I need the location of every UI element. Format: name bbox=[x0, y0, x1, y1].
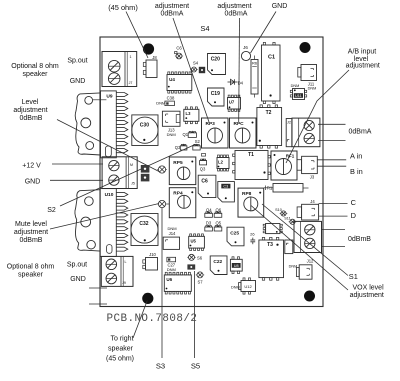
label S3 bottom bbox=[156, 362, 165, 371]
svg-text:DNM: DNM bbox=[167, 267, 176, 272]
svg-text:S4: S4 bbox=[193, 61, 199, 66]
wire B in bbox=[318, 165, 347, 167]
wire leader (45 ohm) to J8 bbox=[126, 12, 148, 59]
svg-text:L3: L3 bbox=[186, 111, 192, 116]
svg-text:M: M bbox=[130, 163, 133, 167]
svg-text:DNM: DNM bbox=[308, 86, 317, 90]
svg-text:U7: U7 bbox=[229, 100, 235, 105]
svg-text:U10: U10 bbox=[105, 192, 114, 198]
switch S3 symbol bbox=[157, 200, 169, 207]
svg-text:RP3: RP3 bbox=[206, 121, 216, 127]
label GND left top bbox=[70, 78, 86, 85]
svg-text:Mute level: Mute level bbox=[15, 221, 47, 228]
svg-text:Level: Level bbox=[22, 99, 39, 106]
svg-text:A/B input: A/B input bbox=[348, 49, 376, 56]
svg-text:C1: C1 bbox=[268, 55, 275, 61]
label +12 V bbox=[22, 162, 41, 169]
IC U9 bbox=[93, 91, 128, 158]
IC U4 bbox=[167, 72, 192, 93]
svg-text:J10: J10 bbox=[149, 252, 156, 257]
wire +12V bbox=[52, 163, 103, 165]
label GND left mid bbox=[25, 178, 41, 185]
IC U10 heatsink bbox=[75, 190, 100, 251]
label A in bbox=[350, 151, 362, 160]
IC L2 bbox=[217, 155, 229, 171]
svg-text:L: L bbox=[125, 260, 127, 264]
capacitor C27 bbox=[167, 257, 176, 272]
svg-text:S6: S6 bbox=[197, 256, 203, 261]
terminal block A-in/B-in bbox=[292, 118, 320, 147]
connector J8 bbox=[143, 55, 157, 78]
IC U9 heatsink bbox=[75, 93, 100, 155]
svg-text:Q3: Q3 bbox=[200, 167, 206, 172]
svg-text:RF1: RF1 bbox=[286, 154, 295, 159]
potentiometer RP5 bbox=[169, 157, 196, 185]
wire leader GND to J6 bbox=[251, 12, 277, 54]
svg-text:adjustment: adjustment bbox=[155, 3, 189, 10]
svg-text:S7: S7 bbox=[197, 280, 203, 285]
label (45 ohm) bbox=[108, 3, 138, 12]
svg-text:J12: J12 bbox=[307, 259, 314, 264]
wire leader level-adj to S2 switch bbox=[57, 120, 160, 173]
svg-text:adjustment: adjustment bbox=[13, 107, 47, 114]
terminal block +12V/GND bbox=[102, 157, 137, 189]
transistor Q4 bbox=[205, 207, 213, 217]
wire leader VOX to RP8 bbox=[251, 206, 348, 291]
svg-text:C: C bbox=[351, 198, 357, 207]
svg-text:U5: U5 bbox=[191, 238, 197, 243]
svg-text:C20: C20 bbox=[211, 57, 220, 63]
svg-text:+12 V: +12 V bbox=[22, 162, 41, 169]
wire leader S2 bbox=[60, 145, 195, 207]
potentiometer RPC bbox=[230, 118, 257, 148]
svg-text:J5: J5 bbox=[131, 182, 135, 186]
svg-text:A in: A in bbox=[350, 151, 362, 160]
connector J5 bbox=[285, 240, 293, 254]
switch S10 symbol bbox=[275, 208, 287, 216]
mounting hole top-left bbox=[143, 43, 154, 54]
label VOX level adjustment bbox=[350, 285, 384, 300]
IC U5 bbox=[189, 234, 205, 251]
connector J2 bbox=[286, 119, 292, 147]
svg-text:0dBmB: 0dBmB bbox=[20, 237, 43, 244]
svg-text:S11: S11 bbox=[284, 217, 290, 221]
switch S11 symbol bbox=[284, 217, 296, 225]
svg-text:U12: U12 bbox=[244, 284, 252, 289]
mounting hole top-right bbox=[300, 42, 311, 53]
svg-text:S10: S10 bbox=[275, 208, 282, 212]
capacitor C30 bbox=[132, 115, 158, 146]
connector J10 bbox=[143, 252, 158, 270]
transistor Q1 bbox=[183, 131, 197, 138]
svg-text:PCB.NO.7808/2: PCB.NO.7808/2 bbox=[107, 313, 198, 325]
label S1 bbox=[349, 272, 358, 281]
capacitor C19 bbox=[208, 88, 225, 106]
svg-text:T2: T2 bbox=[266, 110, 272, 116]
svg-text:S4: S4 bbox=[200, 24, 209, 33]
svg-text:Optional 8 ohm: Optional 8 ohm bbox=[7, 264, 55, 271]
svg-text:(45 ohm): (45 ohm) bbox=[106, 356, 134, 363]
wire leader A/B to RPF1 bbox=[286, 70, 349, 163]
switch S4 symbol bbox=[190, 61, 198, 73]
capacitor C3 bbox=[218, 182, 235, 202]
IC U11 bbox=[290, 84, 306, 100]
svg-text:J9: J9 bbox=[122, 281, 126, 285]
IC U6 bbox=[164, 272, 191, 294]
label S2 bbox=[47, 207, 56, 214]
svg-text:RPC: RPC bbox=[234, 121, 245, 127]
svg-text:L2: L2 bbox=[218, 159, 224, 164]
svg-text:C6: C6 bbox=[201, 178, 208, 184]
PCB board outline bbox=[100, 37, 323, 307]
resistor R6 bbox=[251, 56, 258, 98]
svg-text:Optional 8 ohm: Optional 8 ohm bbox=[11, 63, 59, 70]
svg-text:Q5: Q5 bbox=[216, 221, 222, 226]
label GND left bottom bbox=[70, 276, 86, 283]
IC U3 bbox=[263, 224, 282, 234]
text PCB.NO.7808/2 bbox=[107, 313, 198, 325]
capacitor C1 bbox=[262, 42, 281, 103]
wire stub GND bbox=[89, 303, 107, 305]
svg-text:adjustment: adjustment bbox=[14, 229, 48, 236]
svg-text:0dBmA: 0dBmA bbox=[161, 11, 184, 18]
svg-text:U8: U8 bbox=[234, 264, 239, 268]
svg-text:J4: J4 bbox=[310, 199, 315, 204]
svg-text:adjustment: adjustment bbox=[217, 3, 251, 10]
IC U12 bbox=[231, 278, 256, 294]
svg-text:1: 1 bbox=[130, 55, 132, 59]
IC U7 bbox=[228, 95, 241, 111]
capacitor C38 bbox=[156, 96, 175, 106]
connector J14 bbox=[163, 226, 179, 249]
terminal block J7 bbox=[102, 52, 137, 87]
transistor Q5 bbox=[214, 221, 222, 231]
svg-text:C25: C25 bbox=[230, 230, 239, 236]
label to right speaker bbox=[106, 336, 134, 363]
svg-text:RP5: RP5 bbox=[173, 160, 183, 166]
transformer T1 bbox=[233, 151, 271, 180]
label 0dBmB right bbox=[348, 236, 371, 243]
svg-text:T3: T3 bbox=[267, 242, 273, 248]
wire C bbox=[319, 203, 348, 205]
svg-text:D3: D3 bbox=[206, 221, 212, 226]
svg-text:S2: S2 bbox=[195, 139, 201, 144]
svg-text:J6: J6 bbox=[243, 45, 248, 50]
potentiometer RP8 bbox=[238, 188, 264, 217]
svg-text:J7: J7 bbox=[129, 81, 133, 85]
connector J13 bbox=[162, 111, 180, 137]
label adjustment 0dBmA left bbox=[155, 3, 189, 18]
switch S2 symbol bbox=[157, 166, 167, 173]
transistor Q3 bbox=[200, 154, 207, 172]
svg-text:0dBmB: 0dBmB bbox=[20, 115, 43, 122]
label Sp.out top bbox=[67, 58, 87, 65]
label B in bbox=[350, 167, 363, 176]
label S5 bottom bbox=[191, 362, 200, 371]
svg-text:S2: S2 bbox=[47, 207, 56, 214]
wire 0dBmA upper bbox=[318, 123, 346, 125]
capacitor C20 bbox=[208, 54, 226, 75]
svg-text:C38: C38 bbox=[167, 96, 175, 101]
svg-text:(45 ohm): (45 ohm) bbox=[108, 3, 138, 12]
terminal block J9 bbox=[101, 256, 133, 286]
label A/B input level adjustment bbox=[346, 49, 380, 70]
svg-text:C30: C30 bbox=[140, 122, 149, 128]
switch S2 small symbol bbox=[193, 139, 201, 150]
wire leader S1 to RP8 bbox=[262, 204, 348, 276]
svg-text:C32: C32 bbox=[139, 221, 148, 227]
label D bbox=[351, 211, 356, 220]
svg-text:GND: GND bbox=[272, 3, 288, 10]
wire 0dBmB upper bbox=[322, 229, 346, 231]
svg-text:To right: To right bbox=[111, 336, 134, 343]
connector J4 bbox=[297, 199, 319, 220]
switch S6 symbol bbox=[187, 254, 202, 260]
IC U8 bbox=[230, 257, 242, 274]
label mute level adjustment bbox=[14, 221, 48, 244]
diode D7 bbox=[187, 264, 195, 269]
diode D2 bbox=[141, 174, 150, 182]
svg-text:T1: T1 bbox=[248, 152, 254, 158]
diode D4 bbox=[228, 79, 244, 85]
svg-text:26: 26 bbox=[250, 231, 255, 236]
label GND top bbox=[272, 3, 288, 10]
potentiometer RP4 bbox=[169, 188, 196, 218]
transformer T2 bbox=[257, 105, 282, 148]
svg-text:R6: R6 bbox=[252, 61, 258, 66]
svg-text:J2: J2 bbox=[287, 121, 291, 125]
svg-text:0dBmA: 0dBmA bbox=[225, 11, 248, 18]
transistor Q3 pair bbox=[175, 144, 187, 150]
label optional speaker bottom bbox=[7, 264, 55, 279]
capacitor C26 bbox=[250, 231, 255, 244]
wire 0dBmA lower bbox=[318, 140, 346, 142]
diode D3 bbox=[205, 221, 213, 231]
wire leader adjustment-left to RP3 bbox=[173, 18, 209, 122]
svg-text:C3: C3 bbox=[223, 185, 228, 189]
svg-text:Sp.out: Sp.out bbox=[67, 58, 87, 65]
potentiometer RP3 bbox=[202, 118, 229, 148]
svg-text:S1: S1 bbox=[349, 272, 358, 281]
mounting hole bottom-right bbox=[304, 291, 315, 302]
svg-text:speaker: speaker bbox=[23, 71, 49, 78]
svg-text:C22: C22 bbox=[213, 259, 222, 265]
svg-text:J14: J14 bbox=[169, 231, 176, 236]
svg-text:DNM: DNM bbox=[291, 84, 300, 88]
svg-text:U9: U9 bbox=[106, 94, 112, 100]
svg-text:speaker: speaker bbox=[18, 272, 44, 279]
label 0dBmA right bbox=[349, 129, 372, 136]
diode D8 bbox=[199, 67, 205, 73]
label Sp.out bottom bbox=[67, 262, 87, 269]
wire leader adjustment-mid to RPC bbox=[238, 18, 241, 122]
svg-text:C19: C19 bbox=[211, 91, 220, 97]
diode D1 bbox=[141, 165, 150, 173]
IC L3 bbox=[184, 107, 199, 124]
svg-text:RP8: RP8 bbox=[242, 191, 252, 197]
label level adjustment 0dBmB bbox=[13, 99, 47, 122]
wire leader mute to S3 switch bbox=[50, 204, 159, 230]
svg-text:D: D bbox=[351, 211, 356, 220]
svg-text:U6: U6 bbox=[166, 277, 172, 282]
transistor Q6 bbox=[214, 207, 222, 217]
capacitor C25 bbox=[227, 227, 244, 246]
terminal block 0dBmB bbox=[294, 221, 322, 252]
IC U10 bbox=[100, 189, 128, 257]
label C bbox=[351, 198, 357, 207]
wire A in bbox=[318, 159, 347, 161]
svg-text:U11: U11 bbox=[295, 94, 302, 98]
svg-text:J8: J8 bbox=[152, 55, 157, 60]
mounting hole bottom-left bbox=[142, 293, 153, 304]
svg-text:J3: J3 bbox=[310, 175, 315, 180]
svg-text:D4: D4 bbox=[238, 80, 244, 85]
transformer T3 bbox=[259, 237, 284, 280]
svg-text:DNM: DNM bbox=[156, 101, 165, 106]
wire leader to-right-speaker bbox=[133, 301, 147, 339]
connector J3 bbox=[297, 156, 317, 179]
svg-text:Sp.out: Sp.out bbox=[67, 262, 87, 269]
wire GND mid bbox=[50, 179, 103, 181]
capacitor C6 bbox=[198, 175, 216, 197]
svg-text:0dBmA: 0dBmA bbox=[349, 129, 372, 136]
svg-text:VOX level: VOX level bbox=[353, 285, 385, 292]
capacitor C32 bbox=[131, 214, 158, 246]
wire 0dBmB lower bbox=[322, 246, 346, 248]
connector J12 bbox=[289, 259, 314, 280]
capacitor C22 bbox=[210, 256, 227, 275]
wire D bbox=[319, 215, 348, 217]
svg-text:GND: GND bbox=[25, 178, 41, 185]
svg-text:U4: U4 bbox=[169, 77, 175, 82]
resistor R1 bbox=[264, 184, 309, 193]
label adjustment 0dBmA mid bbox=[217, 3, 251, 18]
potentiometer RPF1 bbox=[271, 151, 297, 180]
svg-text:S3: S3 bbox=[156, 362, 165, 371]
svg-text:speaker: speaker bbox=[108, 346, 134, 353]
wire S5 leader bbox=[194, 271, 196, 358]
switch S7 symbol bbox=[196, 272, 204, 285]
svg-text:GND: GND bbox=[70, 78, 86, 85]
label optional speaker top bbox=[11, 63, 59, 78]
wire S3 leader bbox=[161, 208, 163, 359]
svg-text:S5: S5 bbox=[191, 362, 200, 371]
connector J11 bbox=[298, 65, 317, 91]
svg-text:C6: C6 bbox=[176, 46, 182, 51]
svg-text:0dBmB: 0dBmB bbox=[348, 236, 371, 243]
svg-text:GND: GND bbox=[70, 276, 86, 283]
wire stub Sp.out bbox=[89, 287, 107, 289]
svg-text:DNM: DNM bbox=[167, 132, 176, 137]
connector J6 bbox=[241, 45, 250, 61]
svg-text:B in: B in bbox=[350, 167, 363, 176]
capacitor C6 symbol bbox=[175, 46, 184, 59]
label S4 bbox=[200, 24, 209, 33]
svg-text:adjustment: adjustment bbox=[350, 292, 384, 299]
svg-text:adjustment: adjustment bbox=[346, 63, 380, 70]
